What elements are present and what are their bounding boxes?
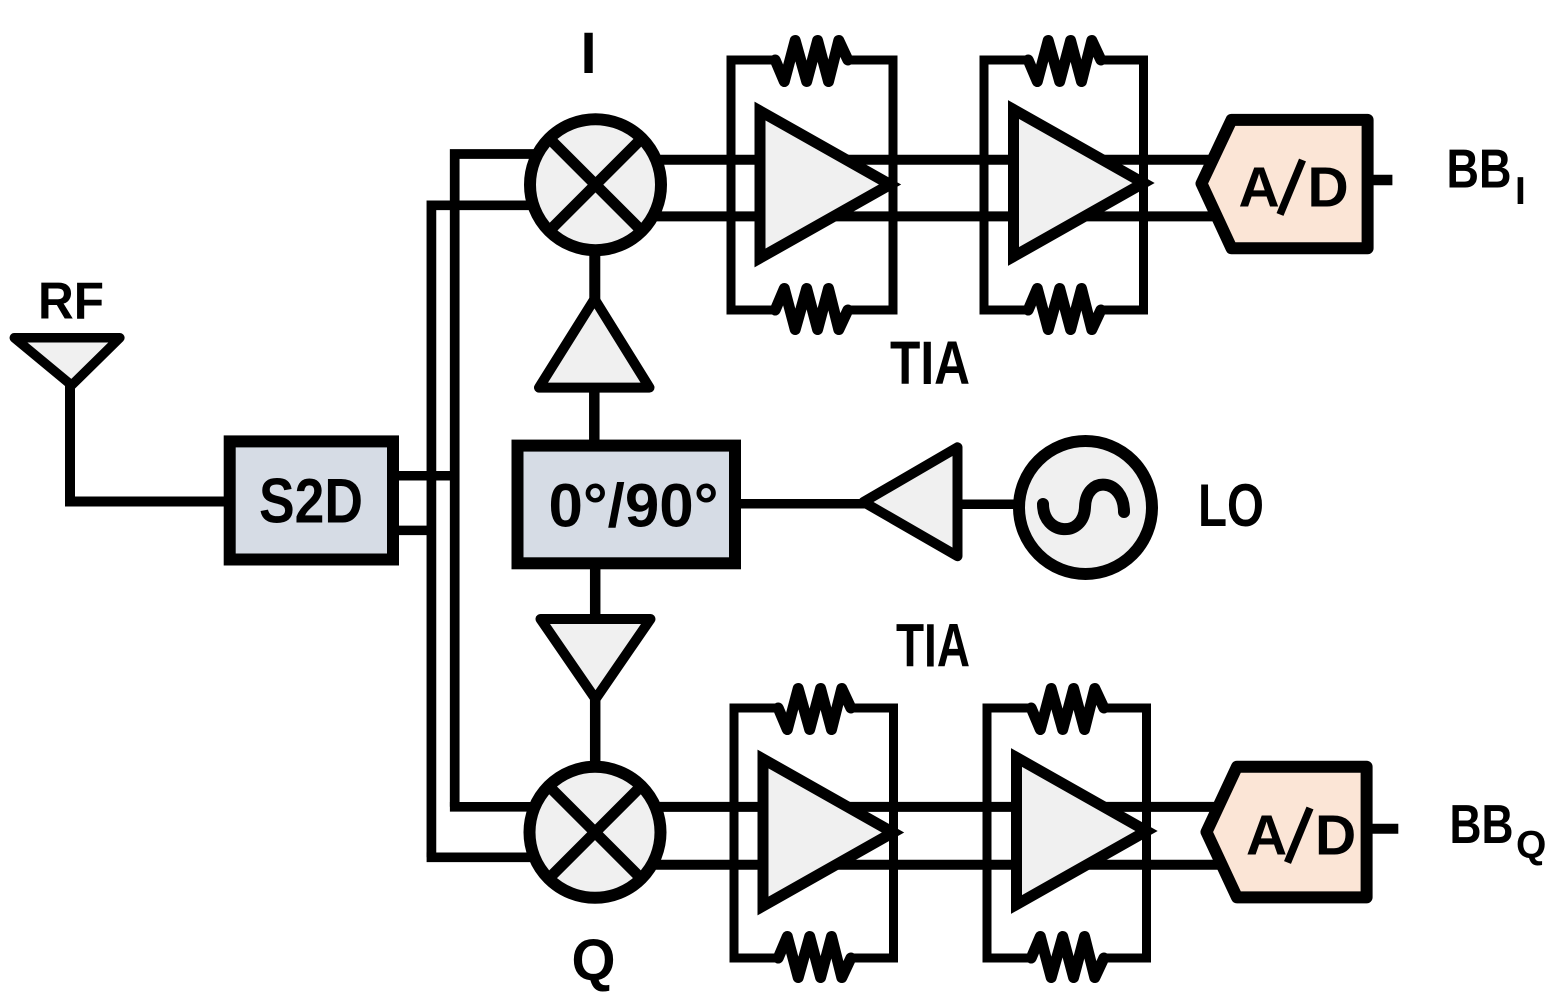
svg-text:I: I — [1515, 170, 1526, 213]
wire 0/90 to LO up-buffer — [589, 388, 600, 440]
TIA2 resistor bottom — [1028, 289, 1101, 330]
svg-text:D: D — [1315, 804, 1356, 868]
wire A/D Q output stub — [1372, 824, 1398, 834]
wire Q chain top (mixer to A/D) — [600, 802, 1255, 812]
svg-text:S2D: S2D — [259, 467, 363, 537]
A/D converter Q — [1207, 767, 1367, 898]
wire A/D I output stub — [1373, 175, 1392, 186]
wire 0/90 to LO down-buffer — [590, 569, 601, 620]
TIA4 resistor top — [1031, 689, 1104, 730]
mixer Q cross — [549, 786, 642, 879]
TIA2 resistor top — [1028, 41, 1101, 82]
wire antenna to S2D — [70, 383, 224, 502]
svg-text:BB: BB — [1447, 137, 1512, 199]
svg-text:LO: LO — [1198, 472, 1264, 539]
TIA3 feedback box right bracket — [851, 708, 894, 958]
LO sine glyph — [1043, 485, 1124, 530]
wire rail inner to Q mixer top input — [450, 802, 560, 812]
mixer Q circle — [530, 767, 661, 898]
TIA4 feedback box right bracket — [1104, 708, 1147, 958]
buffer amp LO-I (up) — [539, 299, 650, 388]
wire rail outer to Q mixer bottom input — [427, 852, 560, 862]
svg-text:0°/90°: 0°/90° — [549, 472, 719, 540]
TIA2 amp — [1014, 110, 1144, 257]
TIA3 resistor bottom — [778, 937, 851, 978]
A/D I slash stroke — [1280, 160, 1303, 215]
TIA3 amp — [763, 759, 893, 906]
LO source circle — [1019, 441, 1152, 574]
TIA2 feedback box left bracket — [984, 60, 1028, 310]
TIA1 amp — [760, 111, 890, 258]
block S2D — [230, 441, 393, 559]
svg-text:A: A — [1246, 804, 1287, 868]
wire LO up-buffer to I mixer — [589, 254, 600, 299]
TIA2 feedback box right bracket — [1101, 60, 1144, 310]
TIA4 resistor bottom — [1031, 937, 1104, 978]
wire 0/90 to LO buffer — [741, 499, 868, 509]
TIA1 resistor top — [775, 41, 848, 82]
mixer I circle — [530, 119, 661, 250]
wire LO buffer to LO source — [958, 500, 1021, 510]
svg-text:BB: BB — [1450, 793, 1514, 855]
A/D converter I — [1202, 120, 1368, 248]
wire I chain top (mixer to A/D) — [600, 155, 1250, 165]
A/D Q slash stroke — [1288, 808, 1311, 863]
wire LO down-buffer to Q mixer — [590, 700, 601, 765]
svg-text:Q: Q — [572, 928, 616, 993]
buffer amp LO-Q (down) — [541, 619, 651, 699]
svg-text:TIA: TIA — [896, 612, 970, 680]
svg-text:TIA: TIA — [890, 329, 970, 397]
svg-text:A: A — [1239, 156, 1280, 220]
TIA3 feedback box left bracket — [734, 708, 778, 958]
TIA4 amp — [1017, 758, 1147, 905]
svg-text:RF: RF — [38, 273, 104, 331]
wire Q chain bottom (mixer to A/D) — [600, 860, 1255, 870]
TIA1 feedback box left bracket — [731, 60, 775, 310]
wire S2D upper output — [399, 471, 459, 481]
wire rail inner (plus) — [455, 154, 560, 807]
wire rail outer (minus) — [431, 205, 560, 857]
svg-text:I: I — [580, 21, 596, 86]
wire I chain bottom (mixer to A/D) — [600, 211, 1250, 221]
svg-text:Q: Q — [1516, 824, 1546, 867]
buffer amp LO (left-pointing) — [864, 447, 958, 556]
TIA1 feedback box right bracket — [848, 60, 893, 310]
TIA1 resistor bottom — [775, 289, 848, 330]
svg-text:D: D — [1308, 156, 1349, 220]
antenna — [14, 338, 120, 386]
TIA4 feedback box left bracket — [987, 708, 1031, 958]
block 0/90 phase splitter — [518, 446, 736, 564]
wire S2D lower output — [399, 526, 435, 536]
TIA3 resistor top — [778, 689, 851, 730]
mixer I cross — [549, 138, 642, 231]
